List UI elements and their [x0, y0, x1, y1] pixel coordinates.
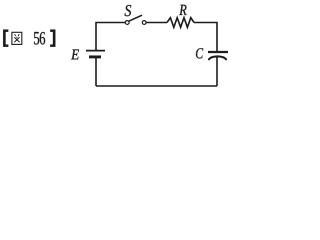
battery E	[86, 51, 105, 57]
wire bottom-left (battery to bottom corner)	[95, 58, 97, 86]
bottom wire	[96, 85, 217, 87]
figure label kanji 図	[12, 32, 22, 44]
wire top-left segment (battery to switch)	[96, 23, 125, 51]
resistor R	[167, 18, 194, 28]
wire capacitor to bottom-right corner	[216, 57, 218, 86]
label S	[125, 5, 132, 16]
figure label bracket 】	[50, 30, 55, 47]
wire resistor to capacitor (top-right corner)	[194, 23, 217, 52]
wire switch to resistor	[146, 22, 167, 24]
figure label bracket 【	[3, 30, 8, 47]
switch S	[125, 15, 146, 24]
capacitor C	[208, 52, 228, 59]
label R	[179, 5, 186, 15]
figure label number 56	[34, 32, 39, 45]
label C	[196, 48, 203, 58]
label E	[71, 50, 79, 60]
